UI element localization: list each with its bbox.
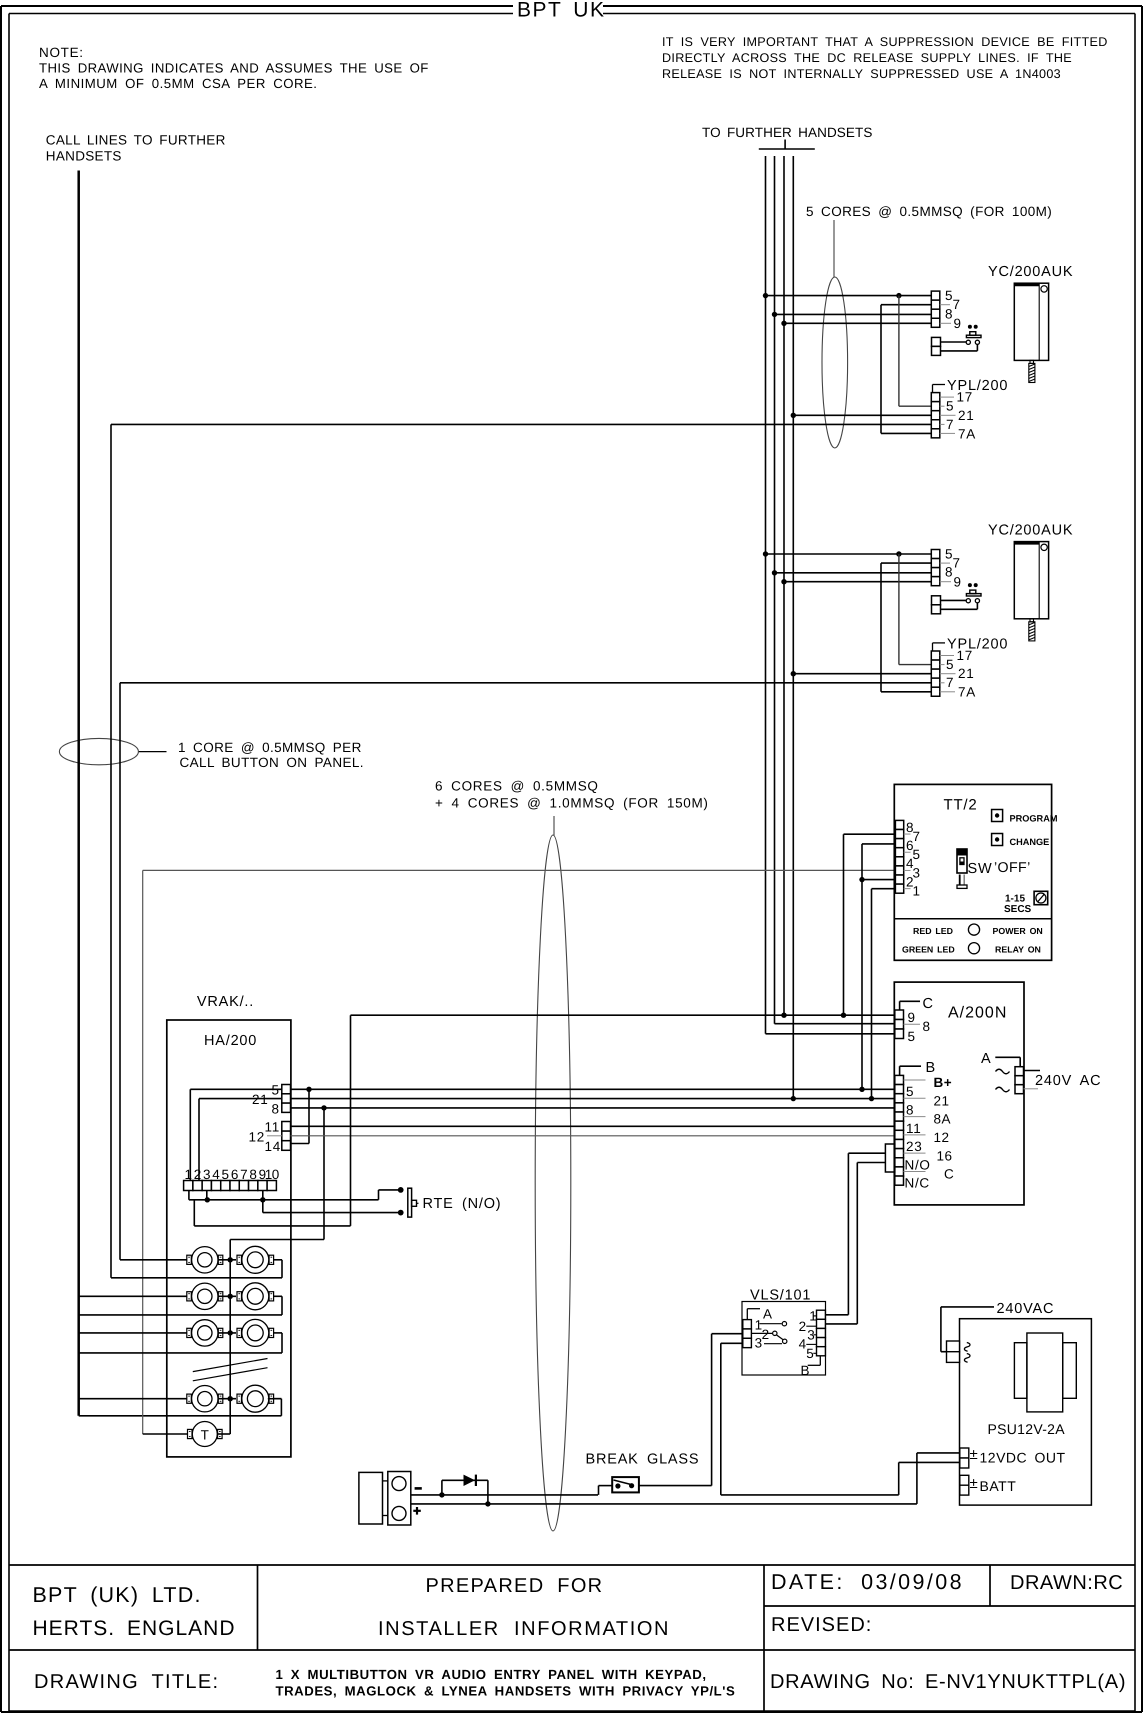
wire riser1 to handset#1 5 [766,295,932,297]
svg-text:N/C: N/C [905,1176,930,1191]
svg-text:7A: 7A [958,685,976,700]
release button #2 wiring [941,599,967,601]
wire maglock minus [411,1494,598,1496]
svg-text:+ 4 CORES @ 1.0MMSQ (FOR 150M): + 4 CORES @ 1.0MMSQ (FOR 150M) [435,796,709,811]
handset #1 cord [1030,360,1034,363]
power supply PSU box [960,1319,1092,1505]
VLS B bracket [819,1356,821,1365]
svg-text:8: 8 [945,306,953,321]
svg-text:B: B [801,1363,811,1378]
svg-text:CHANGE: CHANGE [1010,837,1050,847]
wire ypl2-7 vertical [119,683,121,1260]
svg-text:T: T [201,1427,209,1442]
svg-text:1: 1 [913,884,921,899]
VLS left terminal block 1/2/3 [743,1320,752,1329]
cable marker ellipse E1 tick [833,220,835,277]
svg-text:IT IS VERY IMPORTANT THAT A SU: IT IS VERY IMPORTANT THAT A SUPPRESSION … [662,35,1108,49]
label 240V AC [1024,1070,1041,1072]
svg-text:B: B [926,1060,936,1076]
wire T button to common vertical [218,1433,231,1435]
cable marker ellipse E2 [59,738,138,764]
wire HA5 bridge to HA14 [308,1089,310,1143]
wire riser1 to handset#2 5 [766,553,932,555]
wire row4 inter-button [218,1398,236,1400]
svg-text:’OFF’: ’OFF’ [994,860,1031,876]
svg-text:240VAC: 240VAC [997,1301,1055,1317]
button PROGRAM [992,810,1003,822]
wire row3 inter-button [218,1332,236,1334]
switch SW [957,849,967,873]
A200N B elbow [899,1066,901,1075]
svg-text:9: 9 [954,316,962,331]
wire row4 return loop [274,1398,282,1400]
wire TT2-1 vertical [872,888,896,890]
cable marker ellipse E3 [535,835,571,1531]
A200N top terminal block 9/8/5 [895,1010,904,1020]
wire HA5 to A200N 5 [291,1088,895,1090]
wire common vertical top corner to HA8 drop [230,1239,324,1241]
svg-text:RED LED: RED LED [913,926,953,936]
svg-text:A: A [981,1051,991,1067]
svg-text:VRAK/..: VRAK/.. [197,994,254,1010]
VLS right terminal block 1-5 [817,1310,826,1319]
A200N C elbow [899,1001,901,1010]
svg-text:240V AC: 240V AC [1035,1073,1101,1089]
call button row1 right [242,1246,269,1273]
call button row4 left [192,1386,218,1412]
wire row3 left feed [79,1332,187,1334]
svg-text:BATT: BATT [980,1478,1017,1494]
wire HA8 to A200N 8 [291,1107,895,1109]
wire break glass to VLS 2 [639,1485,712,1487]
PSU AC tildes [964,1343,970,1352]
wire riser3 to handset#1 9 [784,322,931,324]
YPL#1 label bracket [932,385,934,393]
svg-text:21: 21 [934,1093,950,1108]
svg-text:12: 12 [249,1130,265,1145]
svg-text:5: 5 [222,1167,230,1182]
call button row4 right [242,1385,269,1412]
svg-text:6: 6 [231,1167,239,1182]
wire relay 16 elbow [848,1152,885,1154]
call button row2 right [242,1283,269,1310]
VLS switch contacts [760,1323,782,1325]
wire riser4 to YPL#1 21 [793,414,931,416]
svg-text:A MINIMUM OF 0.5MM CSA PER COR: A MINIMUM OF 0.5MM CSA PER CORE. [39,76,317,91]
svg-text:YC/200AUK: YC/200AUK [988,264,1073,280]
svg-text:BPT UK: BPT UK [517,0,605,22]
svg-text:2: 2 [799,1319,807,1334]
wire TT2-3 gray vertical [142,870,144,1434]
svg-text:VLS/101: VLS/101 [750,1288,811,1304]
svg-text:5: 5 [908,1029,916,1044]
TT/2 terminal block 8..1 [895,820,903,829]
YPL#2 terminal block 17/5/21/7/7A [931,651,940,660]
page inner border [9,13,513,15]
wire call bus to row4 return [79,1415,282,1417]
svg-text:TT/2: TT/2 [944,797,978,814]
wire row2 return loop [274,1295,282,1297]
YPL#1 terminal block 17/5/21/7/7A [931,393,940,402]
svg-text:9: 9 [954,574,962,589]
release button #1 connector [932,337,941,346]
wire riser 4 [792,156,794,1099]
wire A200N 9 left drop [350,1015,352,1226]
button CHANGE [992,834,1003,846]
handset #2 cord [1030,619,1034,622]
maglock terminal block [359,1472,383,1524]
svg-text:17: 17 [957,390,973,405]
cable marker ellipse E1 [822,277,848,448]
svg-text:7A: 7A [958,426,976,441]
wire row1 left feed [120,1259,187,1261]
svg-text:5 CORES @ 0.5MMSQ (FOR 100M): 5 CORES @ 0.5MMSQ (FOR 100M) [806,204,1052,219]
wire handset#2 7 to YPL 7A [881,562,931,564]
PSU BATT terminals [960,1475,969,1485]
svg-text:5: 5 [806,1346,814,1361]
svg-text:INSTALLER INFORMATION: INSTALLER INFORMATION [378,1618,670,1640]
release push button #2 [966,599,970,603]
svg-text:5: 5 [946,399,954,414]
handset #1 terminal block 5/7/8/9 [931,291,940,300]
svg-text:8: 8 [272,1101,280,1116]
svg-text:10: 10 [265,1167,279,1182]
wire call line bus [77,171,80,1416]
svg-text:3: 3 [203,1167,211,1182]
wire VLS 3 to PSU minus [721,1342,743,1344]
wire riser2 to handset#1 8 [775,313,932,315]
svg-text:SW: SW [968,861,993,877]
break glass switch [598,1486,600,1495]
svg-text:HANDSETS: HANDSETS [46,149,122,164]
svg-text:2: 2 [194,1167,202,1182]
svg-text:DRAWING No: E-NV1YNUKTTPL(A): DRAWING No: E-NV1YNUKTTPL(A) [770,1671,1126,1693]
svg-text:B+: B+ [934,1075,953,1090]
wire row1 return loop [274,1259,282,1261]
title block frame [9,1564,1135,1566]
wire handset#1 7 to YPL 7A [881,304,931,306]
svg-text:12: 12 [934,1130,950,1145]
PSU 12VDC OUT terminals [960,1448,969,1458]
release push button #1 [966,340,970,344]
wire riser 3 [783,156,785,1015]
svg-text:9: 9 [908,1010,916,1025]
svg-text:RTE (N/O): RTE (N/O) [423,1196,502,1212]
svg-text:DRAWN:RC: DRAWN:RC [1010,1572,1123,1594]
svg-text:CALL BUTTON ON PANEL.: CALL BUTTON ON PANEL. [180,755,364,770]
wire ypl1-7 vertical [110,424,112,1277]
A200N AC terminal block [1015,1067,1024,1076]
wire keypad1/3 to RTE [188,1191,190,1200]
call button row3 right [242,1319,269,1346]
handset YC/200AUK #2 body [1014,542,1048,619]
svg-text:11: 11 [906,1121,921,1136]
wire A200N 9 long horizontal [351,1014,895,1016]
wire HA11 to A200N 11 [291,1125,895,1127]
release button #1 wiring [941,341,967,343]
svg-text:7: 7 [953,556,961,571]
wire call-button line to YPL#2 7 [120,682,931,684]
power supply A/200N box [894,982,1024,1205]
wire riser 1 [765,156,767,1034]
svg-text:7: 7 [946,417,954,432]
panel break diagonal marks [193,1359,268,1372]
svg-text:6 CORES @ 0.5MMSQ: 6 CORES @ 0.5MMSQ [435,779,599,794]
svg-text:TRADES, MAGLOCK & LYNEA HANDSE: TRADES, MAGLOCK & LYNEA HANDSETS WITH PR… [276,1684,736,1699]
svg-text:C: C [944,1167,954,1182]
maglock plus sign [413,1510,421,1512]
svg-text:1 X MULTIBUTTON VR AUDIO ENTRY: 1 X MULTIBUTTON VR AUDIO ENTRY PANEL WIT… [276,1667,707,1682]
svg-text:TO FURTHER HANDSETS: TO FURTHER HANDSETS [702,125,872,140]
handset YC/200AUK #1 body [1014,283,1048,360]
call button row1 left [192,1247,218,1273]
svg-text:SECS: SECS [1004,904,1032,915]
wire T button left feed [143,1433,188,1435]
svg-text:7: 7 [953,297,961,312]
svg-text:5: 5 [906,1084,914,1099]
svg-text:NOTE:: NOTE: [39,45,84,60]
svg-text:1 CORE @ 0.5MMSQ PER: 1 CORE @ 0.5MMSQ PER [178,740,362,755]
wire keypad9 to RTE [262,1191,264,1213]
wire riser3 to handset#2 9 [784,581,931,583]
wire node to YPL#2 5 [898,554,900,665]
svg-text:GREEN LED: GREEN LED [902,945,955,955]
wire call-button line to YPL#1 7 [111,423,931,425]
svg-text:DIRECTLY ACROSS THE DC RELEASE: DIRECTLY ACROSS THE DC RELEASE SUPPLY LI… [662,51,1072,65]
cable marker ellipse E3 tick [553,816,555,836]
svg-text:REVISED:: REVISED: [771,1614,872,1636]
svg-text:RELEASE IS NOT INTERNALLY SUPP: RELEASE IS NOT INTERNALLY SUPPRESSED USE… [662,67,1061,81]
wire riser4 to YPL#2 21 [793,673,931,675]
svg-text:A/200N: A/200N [948,1005,1007,1022]
svg-text:1: 1 [184,1167,192,1182]
svg-text:PSU12V-2A: PSU12V-2A [988,1421,1066,1437]
svg-text:±: ± [970,1475,978,1492]
svg-text:THIS DRAWING INDICATES AND ASS: THIS DRAWING INDICATES AND ASSUMES THE U… [39,61,429,76]
svg-text:RELAY ON: RELAY ON [995,945,1041,955]
cable marker ellipse E2 pointer [138,751,166,753]
svg-text:21: 21 [252,1092,268,1107]
riser header bar [759,148,815,150]
HA/200 terminal block 5/21/8 [282,1085,291,1094]
call button row2 left [192,1283,218,1309]
wire node to YPL#1 5 [898,296,900,407]
wire TT2-3 gray horizontal [143,869,896,871]
VLS A bracket [746,1309,748,1320]
wire row4 left feed [79,1398,187,1400]
handset #2 terminal block 5/7/8/9 [931,550,940,559]
svg-text:A: A [763,1307,773,1322]
svg-text:8: 8 [945,565,953,580]
PSU transformer icon [1027,1333,1063,1412]
wire riser 2 [774,156,776,1024]
svg-text:5: 5 [946,657,954,672]
A200N relay bracket [885,1144,894,1172]
svg-text:YC/200AUK: YC/200AUK [988,522,1073,538]
amplifier HA/200 box [167,1020,291,1457]
svg-text:±: ± [970,1446,978,1463]
svg-text:HA/200: HA/200 [204,1033,257,1049]
svg-text:11: 11 [265,1120,280,1135]
svg-text:4: 4 [212,1167,220,1182]
PSU AC terminal block [947,1341,960,1352]
release button #2 connector [932,596,941,605]
wire buttons common vertical [229,1240,231,1435]
svg-text:8A: 8A [934,1112,952,1127]
wire row3 return loop [274,1332,282,1334]
svg-text:CALL LINES TO FURTHER: CALL LINES TO FURTHER [46,133,226,148]
svg-text:21: 21 [958,666,974,681]
YPL#2 label bracket [932,643,934,651]
svg-text:POWER ON: POWER ON [993,926,1043,936]
A200N main terminal block [895,1075,904,1084]
svg-text:23: 23 [906,1139,922,1154]
wire TT2-7 drop to 9wire [844,833,896,835]
keypad terminal strip 1-10 [184,1181,193,1191]
svg-text:DRAWING TITLE:: DRAWING TITLE: [34,1671,219,1693]
svg-text:2: 2 [762,1327,770,1342]
suppression diode 1N4003 [441,1480,443,1495]
wire HA5 to keypad 1 [190,1088,281,1090]
svg-text:17: 17 [957,648,973,663]
svg-text:DATE: 03/09/08: DATE: 03/09/08 [771,1570,964,1594]
wire relay N/O elbow [857,1162,885,1164]
wire TT2-6 TT2-2 vertical [862,843,895,845]
wire row2 left feed [79,1295,187,1297]
svg-text:8: 8 [906,1103,914,1118]
maglock minus sign [415,1487,422,1490]
page outer border [1,5,513,7]
trades T button [192,1422,217,1447]
svg-text:8: 8 [923,1019,931,1034]
svg-text:8: 8 [249,1167,257,1182]
relay VLS/101 box [742,1302,826,1376]
svg-text:21: 21 [958,408,974,423]
svg-text:BREAK GLASS: BREAK GLASS [586,1452,700,1468]
wire HA21 to keypad 2 [199,1098,282,1100]
wire HA21 to A200N 21 [291,1098,895,1100]
wire riser2 to handset#2 8 [775,572,932,574]
push button RTE (N/O) [398,1187,404,1193]
wire row1 inter-button [218,1259,236,1261]
svg-text:C: C [923,996,934,1012]
svg-text:14: 14 [265,1139,281,1154]
A200N AC tildes [996,1069,1010,1074]
svg-text:3: 3 [755,1336,763,1351]
svg-text:7: 7 [946,675,954,690]
svg-text:PROGRAM: PROGRAM [1010,814,1058,824]
svg-text:7: 7 [240,1167,248,1182]
svg-text:N/O: N/O [905,1157,931,1172]
svg-text:16: 16 [937,1148,953,1163]
wire HA12 to A200N 12 [291,1135,895,1137]
call button row3 left [192,1320,218,1346]
svg-text:HERTS. ENGLAND: HERTS. ENGLAND [33,1617,236,1640]
wire maglock plus to PSU [411,1503,917,1505]
svg-text:12VDC OUT: 12VDC OUT [980,1450,1066,1466]
wire row2 inter-button [218,1295,236,1297]
timer TT/2 box [894,784,1051,960]
svg-text:1-15: 1-15 [1005,894,1025,905]
HA/200 terminal block 11/12/14 [282,1122,291,1132]
svg-text:BPT (UK) LTD.: BPT (UK) LTD. [33,1583,202,1607]
svg-text:PREPARED FOR: PREPARED FOR [426,1575,604,1597]
